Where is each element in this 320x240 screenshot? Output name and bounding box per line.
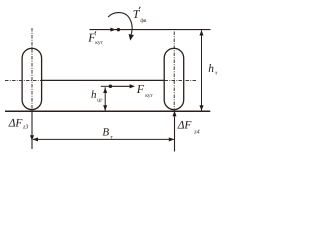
arrowhead of torque arc (down-left) [129, 34, 134, 41]
left wheel centerline [31, 28, 33, 111]
ground line [5, 110, 210, 112]
h_cg dimension line [104, 87, 106, 110]
torque arc T'_fv [108, 13, 132, 35]
force line dF_z3 [31, 111, 33, 149]
svg-text:h: h [91, 89, 97, 101]
node dot at axle center [109, 85, 113, 89]
dF_z4 up arrowhead [172, 111, 176, 116]
svg-text:z4: z4 [193, 129, 199, 135]
svg-text:т: т [215, 70, 218, 76]
h_cg bottom arrowhead [103, 105, 107, 110]
svg-text:цг: цг [97, 97, 103, 103]
right wheel [164, 48, 184, 109]
h_t bottom arrowhead [199, 105, 203, 110]
h_cg top arrowhead [103, 88, 107, 93]
svg-text:ΔF: ΔF [177, 120, 193, 132]
top body line [90, 29, 211, 31]
right wheel centerline [173, 32, 175, 112]
svg-text:z3: z3 [22, 125, 28, 131]
F_kut arrowhead [130, 84, 135, 88]
svg-text:ΔF: ΔF [8, 118, 24, 130]
svg-text:кут: кут [145, 93, 153, 99]
force line dF_z4 [174, 112, 176, 152]
svg-text:фв: фв [140, 18, 146, 24]
B_t left arrowhead [33, 137, 38, 141]
h_cg top bar [101, 85, 111, 87]
F_kut force arrow line [110, 85, 131, 87]
left wheel [22, 48, 41, 109]
node dot on top line [117, 28, 121, 32]
axle centerline right dash-dot [165, 79, 197, 81]
arrowhead F'_kut (right, on top line) [110, 28, 115, 32]
B_t right arrowhead [169, 137, 174, 141]
h_t dimension line [201, 30, 203, 110]
dF_z3 down arrowhead [30, 135, 34, 141]
prime tick of F'_kut [95, 31, 96, 33]
svg-text:h: h [208, 63, 214, 75]
h_t top arrowhead [199, 30, 203, 35]
prime tick of T'_fv [139, 7, 140, 9]
svg-text:F: F [136, 82, 145, 96]
B_t dimension line [33, 138, 174, 140]
axle centerline left dash-dot [5, 79, 42, 81]
axle solid line [42, 79, 165, 81]
svg-text:кут: кут [95, 40, 103, 46]
svg-text:B: B [102, 127, 109, 139]
